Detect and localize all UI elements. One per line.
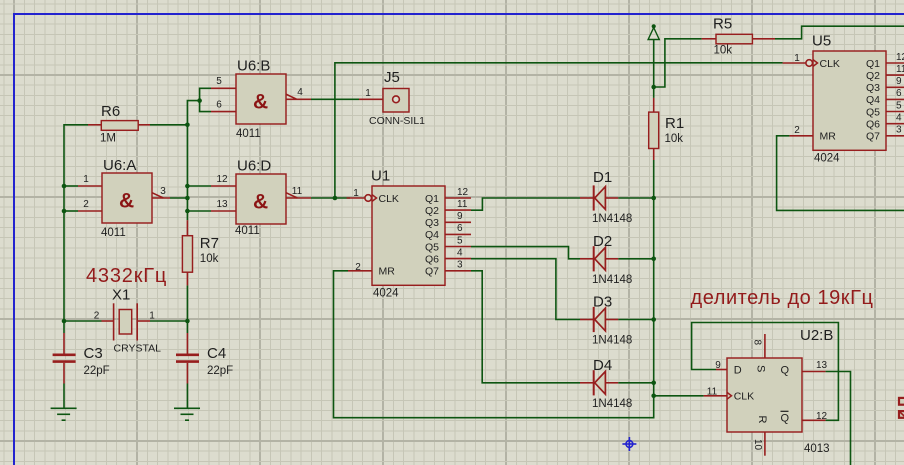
node U1 CLK junction [333,196,338,201]
crystal X1 [94,287,161,355]
svg-text:D3: D3 [593,294,612,311]
svg-text:&: & [253,90,268,113]
wire U2:B D feedback loop [692,323,839,421]
wire bus X1-pin1 column [187,101,199,221]
svg-text:U6:D: U6:D [237,158,271,175]
ground (C4) [174,384,200,421]
svg-text:U6:A: U6:A [103,157,136,174]
svg-text:Q6: Q6 [425,253,439,265]
svg-text:1N4148: 1N4148 [592,398,632,410]
svg-text:6: 6 [896,88,902,99]
wire D4 cathode to column [618,382,653,384]
wire power to R1 [653,40,655,98]
svg-text:Q5: Q5 [866,106,880,118]
svg-text:4: 4 [896,113,902,124]
svg-text:9: 9 [715,360,721,371]
svg-text:1: 1 [365,88,371,99]
svg-text:Q: Q [781,413,790,425]
wire D2 cathode to column [618,258,653,260]
diode D4 1N4148 [580,357,632,410]
node R6 junction [185,123,190,128]
svg-text:R7: R7 [200,235,219,252]
svg-text:2: 2 [794,125,800,136]
node X1 pin1 junction [185,319,190,324]
svg-text:4: 4 [297,87,303,98]
svg-text:D: D [734,365,742,377]
svg-text:11: 11 [292,186,303,197]
resistor R7 [182,220,219,285]
svg-text:4024: 4024 [814,153,840,165]
svg-text:13: 13 [216,199,228,210]
wire U6:B input jog [200,88,211,111]
svg-text:4024: 4024 [373,288,399,300]
resistor R1 [649,98,684,160]
svg-text:12: 12 [216,174,228,185]
node power junction [651,85,656,90]
svg-text:C4: C4 [207,345,226,362]
wire U6:A output [170,197,187,199]
capacitor C3 [53,333,110,384]
wire U6:A input 1 [64,185,78,187]
svg-text:1N4148: 1N4148 [592,213,632,225]
svg-text:1M: 1M [100,133,116,145]
svg-text:9: 9 [896,76,902,87]
power terminal VCC [648,24,659,39]
wire X1 pin1 [150,320,187,322]
svg-text:4332кГц: 4332кГц [86,265,167,287]
svg-text:Q3: Q3 [866,82,880,94]
diode D2 1N4148 [580,233,632,286]
svg-text:11: 11 [457,199,468,210]
node D3 junction [651,317,656,322]
wire to U2:B CLK [654,395,704,397]
svg-text:4: 4 [457,247,463,258]
svg-text:Q2: Q2 [866,70,880,82]
svg-text:R5: R5 [713,16,732,33]
svg-text:CLK: CLK [379,193,399,205]
svg-text:C3: C3 [84,345,103,362]
svg-text:Q3: Q3 [425,217,439,229]
svg-text:4011: 4011 [236,128,261,140]
svg-text:S: S [755,365,767,372]
flip-flop U2:B 4013 [704,327,834,456]
node U6:B input junction [197,98,202,103]
svg-text:Q5: Q5 [425,241,439,253]
svg-text:5: 5 [457,235,463,246]
svg-text:R6: R6 [101,103,120,120]
svg-text:J5: J5 [384,69,400,86]
gate U6:B 4011 [211,58,311,141]
svg-text:Q7: Q7 [425,266,439,278]
svg-text:5: 5 [216,76,222,87]
wire U2:B Q output [826,372,851,465]
svg-text:D1: D1 [593,169,612,186]
svg-text:4013: 4013 [804,443,830,455]
svg-text:Q1: Q1 [425,193,439,205]
wire D3 cathode to column [618,319,653,321]
connector J5 CONN-SIL1 [359,69,425,127]
svg-text:Q4: Q4 [866,94,880,106]
svg-text:4011: 4011 [101,227,126,239]
svg-text:Q1: Q1 [866,58,880,70]
diode D3 1N4148 [580,294,632,347]
wire net X1-pin2 column [64,125,88,321]
IC U5 4024 counter [783,33,904,165]
svg-text:2: 2 [94,311,100,322]
svg-text:11: 11 [896,64,904,75]
svg-text:5: 5 [896,100,902,111]
svg-text:Q2: Q2 [425,205,439,217]
svg-text:10k: 10k [200,253,219,265]
wire Q2 to D1 [471,198,580,210]
svg-text:делитель до 19кГц: делитель до 19кГц [691,287,874,309]
wire C3 top [63,321,65,333]
wire U1 MR to reset net [334,271,654,418]
svg-text:CONN-SIL1: CONN-SIL1 [369,115,425,127]
node U6:A pin2 junction [62,209,67,214]
wire R6 right to bus [150,124,187,126]
svg-text:2: 2 [83,199,89,210]
svg-text:8: 8 [752,340,763,346]
svg-text:1: 1 [83,174,89,185]
svg-text:10: 10 [752,439,763,451]
node D2 junction [651,257,656,262]
svg-text:11: 11 [707,387,718,398]
svg-text:1N4148: 1N4148 [592,335,632,347]
svg-text:3: 3 [160,186,166,197]
wire U1 CLK to U5 CLK riser [335,63,783,198]
svg-text:1N4148: 1N4148 [592,274,632,286]
node D4 junction [651,381,656,386]
svg-text:1: 1 [353,188,359,199]
capacitor C4 [176,333,233,384]
gate U6:D 4011 [211,158,311,238]
node U6:A pin1 junction [62,184,67,189]
node X1 pin2 junction [62,319,67,324]
node D1 junction [651,196,656,201]
wire X1 pin2 [64,320,102,322]
svg-text:10k: 10k [714,45,733,57]
svg-text:U1: U1 [371,168,390,185]
svg-text:CLK: CLK [820,58,840,70]
svg-text:10k: 10k [665,133,684,145]
wire U6:D input 13 [187,210,211,212]
svg-text:Q6: Q6 [866,119,880,131]
svg-text:6: 6 [457,223,463,234]
svg-text:22pF: 22pF [207,365,233,377]
svg-text:6: 6 [216,100,222,111]
node U6:A output junction [185,196,190,201]
svg-text:R: R [756,416,768,424]
wire Q5 to D2 [471,247,580,259]
terminal symbol right edge 2 [899,411,904,418]
wire Q6 to D3 [471,259,580,320]
svg-text:4011: 4011 [235,225,260,237]
svg-text:12: 12 [896,52,904,63]
resistor R5 [702,16,775,57]
svg-text:Q: Q [781,365,790,377]
wire D1 cathode to column [618,197,653,199]
wire R5 to top edge [775,26,904,39]
svg-text:3: 3 [457,260,463,271]
svg-text:13: 13 [816,360,828,371]
svg-text:X1: X1 [112,287,130,304]
gate U6:A 4011 [78,157,170,239]
wire U6:D output [311,197,335,199]
svg-text:CLK: CLK [734,391,754,403]
terminal symbol right edge 1 [899,398,904,405]
diode D1 1N4148 [580,169,632,225]
svg-text:Q7: Q7 [866,131,880,143]
svg-text:&: & [253,190,268,213]
wire R7 bottom to X1 [186,285,188,333]
wire reset column [653,160,655,396]
svg-text:&: & [119,189,134,212]
wire U5 MR to right edge [777,136,904,211]
svg-text:U5: U5 [812,33,831,50]
svg-text:R1: R1 [665,115,684,132]
ground (C3) [51,384,77,421]
svg-text:2: 2 [355,262,361,273]
svg-text:12: 12 [457,187,469,198]
svg-text:U6:B: U6:B [237,58,270,75]
svg-text:Q4: Q4 [425,229,439,241]
svg-text:D2: D2 [593,233,612,250]
IC U1 4024 counter [347,168,471,300]
resistor R6 [88,103,150,145]
svg-text:3: 3 [896,125,902,136]
svg-text:D4: D4 [593,357,612,374]
svg-text:9: 9 [457,211,463,222]
svg-text:CRYSTAL: CRYSTAL [114,343,162,355]
wire power branch to R5 [654,39,702,87]
svg-text:MR: MR [820,131,837,143]
wire U6:B output to J5 [311,98,359,100]
svg-text:1: 1 [794,53,800,64]
origin marker [622,437,636,451]
wire U6:D input 12 [187,185,211,187]
svg-text:1: 1 [149,311,155,322]
wire U6:A input 2 [64,210,78,212]
node CLK U2:B junction [651,394,656,399]
node U6:D pin13 junction [185,209,190,214]
svg-text:22pF: 22pF [84,365,110,377]
wire Q7 to D4 [471,271,580,383]
svg-text:MR: MR [379,266,396,278]
svg-text:U2:B: U2:B [800,327,833,344]
node U6:D pin12 junction [185,184,190,189]
